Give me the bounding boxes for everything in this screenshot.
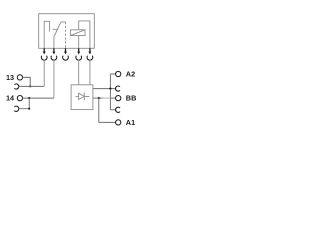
wire socket4 down to LED box xyxy=(78,60,80,85)
pin 5 socket xyxy=(87,56,93,60)
wire arc2L bracket xyxy=(19,98,29,109)
wire socket2 down xyxy=(53,60,55,99)
pin 3 plug arrow xyxy=(64,48,67,54)
bridge socket arc1R (open right) xyxy=(116,86,120,91)
terminal A1 circle xyxy=(116,120,121,125)
terminal 13 circle xyxy=(17,75,22,80)
pin 2 socket xyxy=(51,56,57,60)
wire 14 to socket2 xyxy=(22,97,53,99)
wire W1 LED box to arc1R xyxy=(93,88,116,90)
junction dot W2-A1 xyxy=(98,97,100,99)
wire arc2R bracket xyxy=(110,109,115,111)
wire A1 horizontal xyxy=(99,121,116,123)
pin 3 socket xyxy=(63,56,69,60)
wire W2 LED box to A1 tap xyxy=(93,97,102,99)
wire A2 horizontal xyxy=(110,73,115,75)
terminal A2 circle xyxy=(116,71,121,76)
wire BB to junction xyxy=(110,97,115,99)
coil wire vertical xyxy=(79,21,90,48)
wire socket1 down xyxy=(43,60,45,87)
LED box xyxy=(71,85,93,110)
pin 1 plug arrow xyxy=(43,48,46,54)
mechanical link dashed xyxy=(65,22,67,48)
pin 5 plug arrow xyxy=(88,48,91,54)
terminal BB circle xyxy=(116,95,121,100)
bridge socket under 14 (open left) xyxy=(14,106,18,111)
junction dot W1 xyxy=(109,88,111,90)
svg-text:BB: BB xyxy=(126,94,137,103)
wire A2 vertical xyxy=(109,74,111,110)
junction dot 13 xyxy=(29,85,31,87)
wire 13 to bus xyxy=(22,77,30,86)
bridge socket under 13 (open left) xyxy=(14,84,18,89)
contact lever xyxy=(54,22,61,48)
pin 4 plug arrow xyxy=(77,48,80,54)
svg-text:14: 14 xyxy=(6,94,15,103)
pin 2 plug arrow xyxy=(52,48,55,54)
pin 1 socket xyxy=(41,56,47,60)
coil K1 xyxy=(70,30,85,36)
diode wire xyxy=(76,95,90,97)
contact fixed terminal (n-shape) xyxy=(44,21,49,48)
svg-text:A1: A1 xyxy=(126,118,135,127)
diode triangle xyxy=(79,93,85,99)
wire A1 vertical xyxy=(98,98,100,122)
svg-text:13: 13 xyxy=(6,73,14,82)
junction dot 14 xyxy=(28,97,30,99)
bridge socket arc2R (open right) xyxy=(116,107,120,112)
coil diagonal xyxy=(70,30,85,36)
junction dot arc2L xyxy=(28,108,30,110)
diode cathode bar xyxy=(83,93,85,101)
pin 4 socket xyxy=(76,56,82,60)
relay module box xyxy=(39,14,95,49)
wire arc1L to socket1 xyxy=(19,85,44,87)
wire socket5 down to LED box xyxy=(89,60,91,85)
svg-text:A2: A2 xyxy=(126,70,135,79)
wire W2 faint middle segment xyxy=(103,97,111,99)
contact tick xyxy=(53,28,58,30)
mechanical link horizontal xyxy=(61,21,66,23)
terminal 14 circle xyxy=(17,95,22,100)
